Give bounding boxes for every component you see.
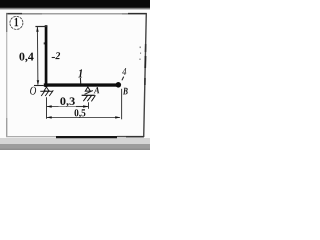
ground line at O: [40, 90, 53, 92]
ground line at A: [82, 94, 95, 96]
label 0,4: [19, 53, 33, 63]
ball at end B: [116, 82, 122, 88]
rod 1 (horizontal bar of bracket): [44, 83, 117, 86]
leader to ball label 4: [122, 77, 124, 81]
extension line at bottom of dimension 0,4: [34, 85, 44, 87]
extension line below B: [121, 89, 123, 120]
dimension line 0,4 vertical: [36, 27, 39, 85]
dimension 0,4 arrow down: [37, 80, 40, 85]
label 1 (rod 1): [78, 69, 82, 77]
leader for label 1: [79, 78, 81, 84]
extension line top of rod 2: [35, 26, 47, 28]
rod 2 (vertical bar of bracket): [45, 25, 48, 87]
dimension 0,5 arrow right: [115, 116, 120, 118]
label 0,3: [60, 97, 75, 106]
scan black band top: [0, 0, 150, 8]
extension line below A: [88, 102, 90, 109]
dimension line 0,5: [47, 117, 120, 119]
frame bottom line: [7, 136, 57, 138]
pivot triangle at A: [85, 87, 90, 91]
dimension 0,3 arrow left: [47, 105, 52, 107]
extension line below O: [46, 97, 48, 119]
dimension 0,5 arrow left: [47, 116, 52, 118]
label 4 (ball): [122, 68, 126, 75]
badge digit 1: [15, 18, 19, 26]
pivot triangle at O: [44, 87, 49, 91]
hatching at O: [41, 90, 45, 96]
dimension line 0,3: [47, 106, 88, 108]
dimension 0,3 arrow right: [83, 105, 88, 107]
frame left line: [6, 13, 8, 137]
frame right line: [144, 13, 147, 137]
label O: [30, 87, 36, 95]
stray hatch stroke at A: [85, 91, 93, 95]
label B: [123, 88, 128, 95]
dimension 0,4 arrow up: [36, 27, 39, 32]
leader for label 2: [52, 57, 55, 59]
label A: [94, 87, 100, 93]
label 2 (rod 2): [55, 52, 60, 59]
scan gray band bottom: [0, 138, 150, 144]
scan specks near right frame: [140, 47, 141, 49]
label 0,5: [75, 109, 86, 118]
hatching at A: [83, 95, 87, 101]
frame top line: [6, 13, 147, 15]
figure number badge circle: [10, 16, 23, 29]
